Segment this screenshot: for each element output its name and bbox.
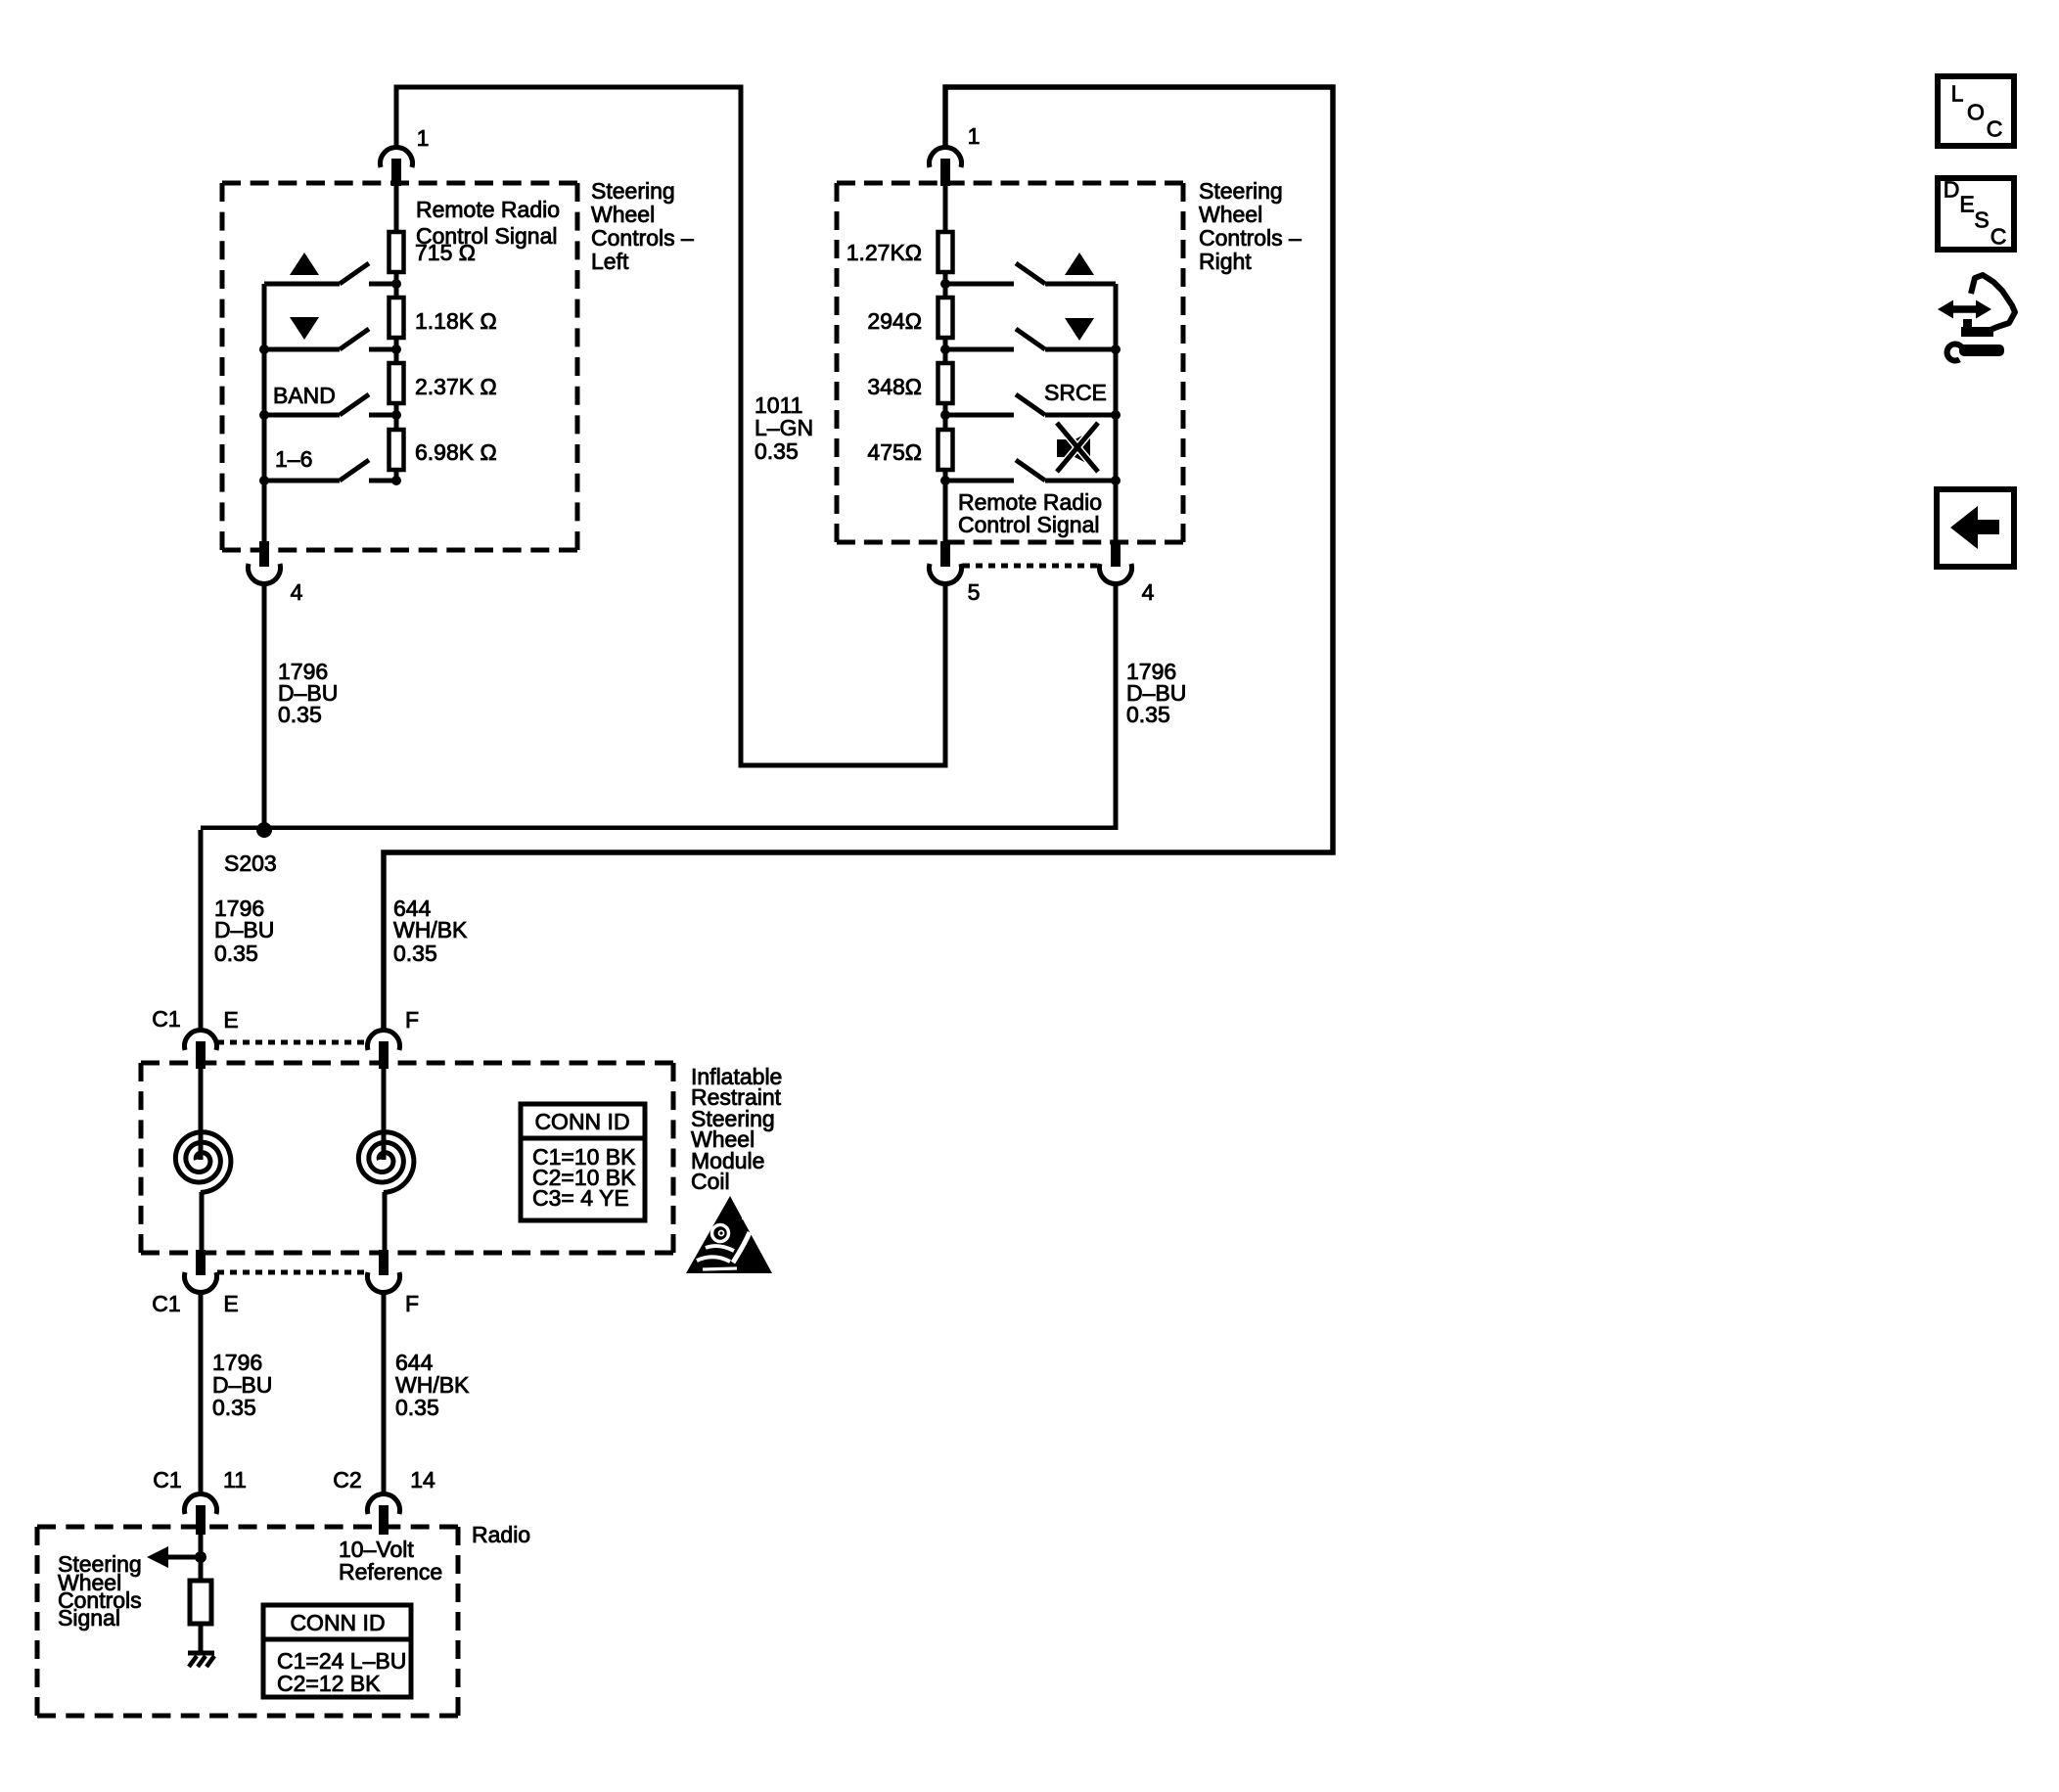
wire: S203 horizontal bus: [201, 826, 1116, 831]
svg-text:348Ω: 348Ω: [867, 374, 922, 399]
resistor 715 ohm: [389, 232, 404, 272]
svg-text:C1: C1: [153, 1467, 181, 1493]
wire: right bus vertical: [1114, 284, 1119, 542]
icon: back arrow box: [1937, 489, 2014, 567]
svg-text:4: 4: [1142, 579, 1155, 605]
icon: muted speaker: [1057, 423, 1098, 472]
switch: seek up (left box): [264, 282, 340, 287]
wire 1796 D-BU: left pin 4 down to splice S203: [262, 582, 267, 830]
connector pin 4 (left box) male bar: [259, 541, 269, 567]
symbol: down triangle (right box): [1065, 318, 1094, 341]
wire into coil 1: [199, 1069, 204, 1160]
node: junction at signal tap: [195, 1551, 206, 1563]
svg-text:0.35: 0.35: [755, 438, 799, 464]
resistor 348 ohm: [938, 363, 953, 403]
node chain row4 (right): [940, 476, 950, 485]
node: bus junction row 3: [259, 410, 269, 420]
svg-text:4: 4: [291, 579, 303, 605]
svg-text:BAND: BAND: [273, 383, 336, 408]
svg-text:E: E: [1959, 191, 1974, 216]
wire: resistor to ground: [199, 1624, 204, 1653]
SRS airbag warning triangle: [686, 1196, 772, 1273]
svg-text:Controls –: Controls –: [591, 225, 694, 251]
svg-text:Remote Radio: Remote Radio: [416, 197, 560, 222]
svg-text:Left: Left: [591, 249, 629, 274]
svg-text:Steering: Steering: [591, 178, 675, 204]
left steering wheel controls dashed box: [222, 181, 577, 186]
wire chain R4 bottom to row 4: [394, 470, 399, 481]
connector pin 1 (right box) arc: [930, 147, 962, 167]
wire out of coil 1: [200, 1192, 205, 1255]
switch: seek down (left box): [264, 347, 340, 352]
svg-text:Radio: Radio: [472, 1522, 530, 1547]
resistor 1.18K ohm: [389, 298, 404, 338]
node chain row1 (right): [940, 279, 950, 289]
wire chain R4 to box bottom (pin 5 leg): [943, 470, 948, 542]
symbol: up triangle (right box): [1065, 253, 1094, 275]
connector pin 4 (right box) male bar: [1111, 541, 1121, 567]
node bus row2 (right): [1111, 345, 1121, 354]
svg-text:Wheel: Wheel: [591, 202, 655, 227]
ground symbol: [188, 1653, 214, 1667]
connector pin 5 (right box) arc: [930, 564, 962, 584]
svg-text:Control Signal: Control Signal: [416, 223, 557, 249]
svg-text:O: O: [1967, 99, 1985, 124]
svg-text:Control Signal: Control Signal: [958, 512, 1099, 537]
coil 2 spiral (clockspring): [358, 1132, 414, 1193]
wire: resistor chain top stub (left): [394, 184, 399, 232]
resistor 475 ohm: [938, 430, 953, 470]
svg-text:0.35: 0.35: [212, 1395, 256, 1420]
icon: component location (car outline with arrow and wrench): [1938, 275, 2015, 361]
node bus row3 (right): [1111, 410, 1121, 420]
wire chain R1-R2: [394, 272, 399, 298]
switch: seek up (right box): [945, 282, 1014, 287]
dotted connector line between pins 5 and 4: [963, 564, 1098, 569]
svg-text:L–GN: L–GN: [755, 415, 813, 440]
wire 644 WH/BK: coil F to radio C2-14: [382, 1291, 387, 1493]
svg-text:294Ω: 294Ω: [867, 308, 922, 334]
svg-text:0.35: 0.35: [1126, 702, 1170, 727]
svg-text:6.98K Ω: 6.98K Ω: [415, 439, 497, 465]
switch: BAND (left box): [264, 413, 340, 418]
connector pin 4 (left box) arc: [248, 564, 280, 584]
wire 644 WH/BK upper: right pin 1 up, across top, down right side, across, down to coil F: [384, 87, 1333, 1030]
svg-text:F: F: [405, 1291, 419, 1316]
svg-text:Controls –: Controls –: [1199, 225, 1302, 251]
svg-text:11: 11: [223, 1467, 247, 1493]
svg-text:E: E: [223, 1291, 238, 1316]
svg-text:C1: C1: [152, 1291, 180, 1316]
wire: left bus vertical: [262, 284, 267, 550]
svg-text:S: S: [1974, 207, 1989, 232]
svg-text:1.18K Ω: 1.18K Ω: [415, 308, 497, 334]
svg-text:F: F: [405, 1007, 419, 1033]
connector pin 1 (right box) male bar: [940, 159, 950, 186]
wire 1796 D-BU: S203 down-left leg to coil E: [199, 830, 204, 1030]
resistor 6.98K ohm: [389, 430, 404, 470]
svg-text:2.37K Ω: 2.37K Ω: [415, 374, 497, 399]
svg-text:D: D: [1944, 176, 1960, 202]
radio dashed box: [37, 1525, 458, 1530]
svg-text:C2=12 BK: C2=12 BK: [277, 1671, 381, 1696]
node bus row4 (right): [1111, 476, 1121, 485]
switch: seek down (right box): [945, 347, 1014, 352]
svg-text:C: C: [1987, 115, 2003, 141]
connector F (module top) arc: [368, 1030, 400, 1050]
dotted connector line between E and F (module bottom): [217, 1270, 367, 1275]
svg-text:WH/BK: WH/BK: [393, 917, 468, 942]
wire out of coil 2: [383, 1192, 388, 1255]
wire chain R3-R4 (right): [943, 403, 948, 430]
svg-text:E: E: [223, 1007, 238, 1033]
connector C1-11 (radio) arc: [185, 1493, 217, 1514]
svg-text:1.27KΩ: 1.27KΩ: [846, 240, 922, 265]
svg-text:C1: C1: [152, 1006, 180, 1032]
connector pin 4 (right box) arc: [1100, 564, 1132, 584]
svg-text:C: C: [1990, 223, 2007, 249]
svg-text:Coil: Coil: [691, 1169, 730, 1194]
right steering wheel controls dashed box: [837, 181, 1183, 186]
node: chain junction row 3: [391, 410, 401, 420]
resistor 2.37K ohm: [389, 363, 404, 403]
arrow: steering wheel controls signal (off-page): [147, 1546, 168, 1568]
splice S203 junction dot: [256, 822, 272, 838]
node: bus junction row 4: [259, 476, 269, 485]
icon: LOC box: [1938, 76, 2014, 146]
wire: resistor chain top stub (right): [943, 184, 948, 232]
wire chain R2-R3 (right): [943, 338, 948, 363]
node: chain junction row 2: [391, 345, 401, 354]
connector F (module top) male bar: [379, 1041, 389, 1069]
connector C1-E (module top) male bar: [196, 1041, 206, 1069]
svg-text:475Ω: 475Ω: [867, 439, 922, 465]
svg-text:1: 1: [417, 125, 430, 151]
coil 1 spiral (clockspring): [175, 1132, 231, 1193]
wire chain R1-R2 (right): [943, 272, 948, 298]
wire: signal tap to arrow: [162, 1555, 201, 1560]
switch: mute (right box): [945, 479, 1014, 483]
CONN ID table (module): [521, 1104, 645, 1220]
icon: DESC box: [1938, 178, 2014, 250]
connector C1-E (module bottom) arc: [185, 1272, 217, 1293]
module dashed box: [141, 1061, 673, 1066]
svg-text:C3= 4 YE: C3= 4 YE: [532, 1185, 629, 1211]
connector C2-14 (radio) arc: [368, 1493, 400, 1514]
wire: radio pin 11 into divider network: [199, 1533, 204, 1581]
switch: SRCE (right box): [945, 413, 1014, 418]
svg-text:14: 14: [410, 1467, 435, 1493]
wire 1796 D-BU: right pin 4 down to S203 bus: [1114, 582, 1119, 830]
svg-text:0.35: 0.35: [278, 702, 322, 727]
wire 1796 D-BU: coil E to radio C1-11: [199, 1291, 204, 1493]
connector F (module bottom) male bar: [379, 1250, 389, 1275]
svg-text:Reference: Reference: [339, 1559, 442, 1585]
svg-text:Right: Right: [1199, 249, 1252, 274]
resistor 294 ohm: [938, 298, 953, 338]
wire into coil 2: [382, 1069, 387, 1160]
connector pin 1 (left box) arc: [381, 147, 413, 167]
svg-text:L: L: [1951, 80, 1964, 106]
svg-text:Steering: Steering: [1199, 178, 1283, 204]
node: chain junction row 1: [391, 279, 401, 289]
wire chain R3-R4: [394, 403, 399, 430]
svg-text:0.35: 0.35: [393, 941, 437, 966]
node: bus junction row 2: [259, 345, 269, 354]
svg-text:CONN ID: CONN ID: [534, 1109, 629, 1134]
svg-text:C2: C2: [333, 1467, 361, 1493]
connector C1-E (module bottom) male bar: [196, 1250, 206, 1275]
resistor (radio pull-down): [190, 1581, 211, 1624]
wire 1011 L-GN: left pin 1 up, across, down, to right pin 5: [396, 87, 945, 765]
svg-text:1–6: 1–6: [275, 446, 312, 472]
symbol: down triangle (left box): [290, 317, 319, 340]
connector F (module bottom) arc: [368, 1272, 400, 1293]
svg-text:SRCE: SRCE: [1044, 380, 1107, 405]
CONN ID table (radio): [263, 1605, 411, 1697]
svg-text:CONN ID: CONN ID: [290, 1610, 385, 1635]
svg-text:1: 1: [968, 123, 981, 149]
connector C1-11 (radio) male bar: [196, 1505, 206, 1535]
dotted connector line between E and F (module top): [217, 1040, 367, 1045]
svg-text:5: 5: [968, 579, 981, 605]
svg-text:0.35: 0.35: [214, 941, 258, 966]
svg-text:0.35: 0.35: [395, 1395, 439, 1420]
svg-text:S203: S203: [224, 850, 277, 876]
connector C1-E (module top) arc: [185, 1030, 217, 1050]
svg-text:D–BU: D–BU: [214, 917, 274, 942]
node: chain junction row 4: [391, 476, 401, 485]
switch: preset 1-6 (left box): [264, 479, 340, 483]
node chain row3 (right): [940, 410, 950, 420]
connector C2-14 (radio) male bar: [379, 1505, 389, 1535]
svg-text:Signal: Signal: [58, 1605, 120, 1631]
node chain row2 (right): [940, 345, 950, 354]
connector pin 1 (left box) male bar: [391, 159, 401, 186]
symbol: up triangle (left box): [290, 253, 319, 275]
connector pin 5 (right box) male bar: [940, 541, 950, 567]
wire chain R2-R3: [394, 338, 399, 363]
resistor 1.27K ohm: [938, 232, 953, 272]
svg-text:Wheel: Wheel: [1199, 202, 1262, 227]
